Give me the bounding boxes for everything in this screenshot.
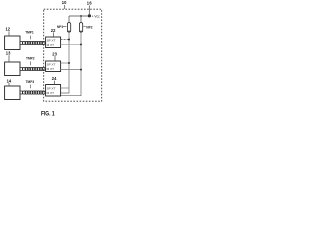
- lead line to box 23: [54, 56, 56, 61]
- resistor NP2: [79, 23, 82, 32]
- wire 24 pin1: [61, 87, 69, 89]
- cable coil TMP2: [20, 67, 45, 70]
- svg-text:12: 12: [6, 26, 11, 31]
- node at bus: [80, 43, 82, 45]
- svg-text:16: 16: [87, 1, 93, 6]
- riser wire to R1: [68, 16, 70, 23]
- label 10 (control unit): [62, 0, 67, 5]
- wire 23 pin1: [61, 62, 69, 64]
- wire 22 pin2: [61, 43, 81, 45]
- svg-text:SP XT: SP XT: [47, 86, 56, 90]
- label 16 (supply terminal): [87, 1, 93, 6]
- label NP2: [86, 25, 92, 29]
- svg-text:M XT: M XT: [47, 67, 55, 71]
- sensor box 12: [5, 36, 20, 50]
- resistor NP1: [67, 23, 70, 32]
- svg-text:SP XT: SP XT: [47, 39, 56, 43]
- riser wire to R2: [80, 16, 82, 23]
- svg-text:13: 13: [6, 50, 11, 55]
- lead dash to NP2: [83, 26, 85, 28]
- svg-text:NP1: NP1: [57, 25, 63, 29]
- bus wire right (clock): [60, 32, 81, 96]
- svg-text:TMP1: TMP1: [25, 30, 34, 34]
- label 22: [51, 28, 56, 33]
- dashed enclosure (control unit boundary): [44, 9, 102, 101]
- lead line to box 24: [54, 81, 56, 85]
- node at bus: [68, 39, 70, 41]
- cable coil TMP3: [20, 91, 45, 94]
- label TMP3: [26, 80, 35, 84]
- svg-text:24: 24: [52, 76, 57, 81]
- connector box 23: [46, 61, 61, 72]
- lead line to box 12: [8, 31, 10, 35]
- label TMP2: [26, 56, 35, 60]
- svg-text:NP2: NP2: [86, 25, 92, 29]
- sensor box 14: [5, 86, 20, 100]
- svg-text:23: 23: [52, 51, 57, 56]
- wire 23 pin2: [61, 69, 81, 71]
- connector box 22: [46, 37, 61, 48]
- wire 22 pin1 (dash-dot): [61, 39, 69, 41]
- node on rail: [80, 15, 82, 17]
- label 14: [7, 79, 12, 84]
- lead dash to NP1: [63, 26, 67, 28]
- svg-text:TMP3: TMP3: [26, 80, 35, 84]
- node at bus: [80, 69, 82, 71]
- lead line to dashed box: [64, 5, 66, 9]
- lead line to coil TMP1: [29, 36, 31, 40]
- Vcc rail wire: [69, 15, 88, 17]
- lead line to box 22: [53, 32, 55, 36]
- node at bus: [68, 62, 70, 64]
- label NP1: [57, 25, 63, 29]
- svg-text:FIG. 1: FIG. 1: [41, 111, 55, 118]
- svg-text:14: 14: [7, 79, 12, 84]
- lead line to coil TMP3: [29, 85, 31, 89]
- figure caption: [41, 111, 55, 118]
- label 24: [52, 76, 57, 81]
- lead line to coil TMP2: [29, 61, 31, 65]
- cable coil TMP1: [20, 41, 45, 44]
- lead line to box 13: [8, 55, 10, 62]
- label 23: [52, 51, 57, 56]
- svg-text:M XT: M XT: [47, 43, 55, 47]
- supply terminal circle: [88, 15, 91, 18]
- bus wire left (data): [61, 32, 69, 93]
- label 13: [6, 50, 11, 55]
- lead line to box 14: [8, 83, 10, 86]
- label 12: [6, 26, 11, 31]
- resistor NP1 lower terminal: [68, 31, 70, 33]
- svg-text:10: 10: [62, 0, 67, 5]
- lead line to supply circle: [88, 5, 90, 14]
- svg-text:+ Vcc: + Vcc: [92, 14, 100, 18]
- connector box 24: [46, 85, 61, 97]
- label TMP1: [25, 30, 34, 34]
- svg-text:M XT: M XT: [47, 91, 55, 95]
- sensor box 13: [5, 62, 20, 76]
- svg-text:22: 22: [51, 28, 56, 33]
- resistor NP2 lower terminal: [80, 31, 82, 33]
- svg-text:SP XT: SP XT: [47, 63, 56, 67]
- label + Vcc: [92, 14, 100, 18]
- svg-text:TMP2: TMP2: [26, 56, 35, 60]
